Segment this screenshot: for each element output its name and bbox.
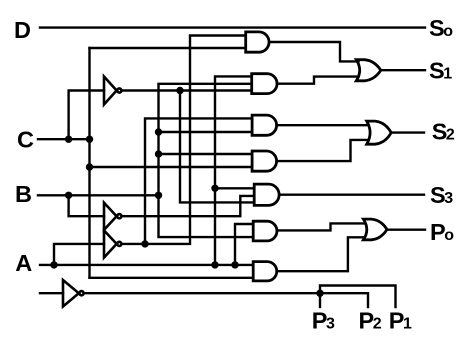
svg-text:S2: S2 xyxy=(432,118,455,144)
wire AND1 output to OR1 upper input xyxy=(269,42,358,61)
AND gate AND3 xyxy=(252,115,277,135)
AND gate AND4 xyxy=(252,151,276,171)
wire A horizontal to AND7 xyxy=(40,264,253,266)
wire A up to NOT3 input xyxy=(54,244,104,265)
svg-text:C: C xyxy=(17,126,34,152)
wire B to AND3 lower input xyxy=(159,131,253,133)
wire AND5 output S3 xyxy=(279,193,424,195)
OR gate OR2 xyxy=(367,121,392,144)
NOT gate NOT1 (C inverter) xyxy=(104,77,121,105)
AND gate AND7 xyxy=(253,262,277,281)
svg-text:A: A xyxy=(15,250,32,276)
OR gate OR3 xyxy=(363,219,387,240)
junction P3 xyxy=(316,290,323,297)
wire C to AND4 lower input xyxy=(90,166,253,168)
wire P3 stub xyxy=(319,293,321,307)
junction B to NOT2 xyxy=(65,192,72,199)
junction A to AND2 xyxy=(211,261,218,268)
junction C on vertical xyxy=(86,136,93,143)
wire notC vertical to AND5 lower input xyxy=(180,91,254,203)
junction C branch to AND4 xyxy=(86,163,93,170)
junction B to AND4 xyxy=(155,150,162,157)
wire OR3 output P0 xyxy=(387,228,425,230)
wire AND7 output to OR3 lower input xyxy=(277,237,365,271)
wire notA to AND3 upper input xyxy=(145,118,252,243)
svg-text:Po: Po xyxy=(430,219,454,245)
wire B horizontal xyxy=(38,194,159,196)
wire C up to NOT1 input xyxy=(69,91,104,140)
junction notA branch xyxy=(141,240,148,247)
wire AND4 output to OR2 lower input xyxy=(277,140,369,161)
NOT gate NOT2 (B inverter) xyxy=(104,203,121,230)
svg-text:B: B xyxy=(15,181,32,207)
svg-text:P3: P3 xyxy=(312,307,335,333)
wire NOT1 output to AND2 lower input xyxy=(122,89,252,91)
junction B main xyxy=(155,192,162,199)
wire D to S0 xyxy=(40,26,425,28)
junction A to NOT3 xyxy=(50,261,57,268)
AND gate AND5 xyxy=(254,184,279,205)
svg-text:D: D xyxy=(14,17,31,43)
junction A to AND6 xyxy=(231,261,238,268)
svg-text:S1: S1 xyxy=(429,58,452,84)
wire C horizontal xyxy=(38,138,90,140)
wire B to AND4 upper input xyxy=(159,153,253,155)
wire B up branch to AND2 middle input xyxy=(159,84,252,196)
wire A to AND5 upper input xyxy=(215,187,254,189)
wire OR1 output S1 xyxy=(382,69,425,71)
junction B to AND3 xyxy=(155,128,162,135)
wire AND6 output to OR3 upper input xyxy=(277,223,365,230)
wire C branch vertical x89.5 xyxy=(88,48,90,278)
wire B to NOT2 input xyxy=(69,195,104,216)
AND gate AND1 xyxy=(246,32,269,52)
wire A up branch to AND6 upper input xyxy=(235,224,253,265)
svg-text:P1: P1 xyxy=(389,307,412,333)
svg-text:P2: P2 xyxy=(359,307,382,333)
OR gate OR1 xyxy=(356,60,381,81)
AND gate AND2 xyxy=(252,74,277,94)
AND gate AND6 xyxy=(253,221,277,241)
wire B down branch to AND6 lower input xyxy=(159,195,254,237)
junction NOT1 output branch xyxy=(176,87,183,94)
wire branch to P1 xyxy=(320,286,396,308)
wire A up branch to AND2 upper input xyxy=(215,76,252,265)
wire notB to AND5 middle input xyxy=(122,196,254,216)
svg-text:So: So xyxy=(429,15,453,41)
svg-text:S3: S3 xyxy=(430,182,453,208)
NOT gate NOT3 (A inverter) xyxy=(104,230,121,257)
wire NOT4 output to P2 xyxy=(84,293,368,307)
wire AND3 output to OR2 upper input xyxy=(277,124,369,126)
wire notA output run xyxy=(122,36,246,244)
junction C to NOT1 xyxy=(65,136,72,143)
junction A to AND5 xyxy=(211,185,218,192)
NOT gate NOT4 xyxy=(63,280,84,307)
wire C to AND1 lower input xyxy=(90,47,246,49)
wire C to AND7 lower input xyxy=(90,277,254,279)
wire AND2 output to OR1 lower input xyxy=(277,77,359,84)
wire NOT4 input stub xyxy=(40,292,63,294)
wire OR2 output S2 xyxy=(392,131,424,133)
